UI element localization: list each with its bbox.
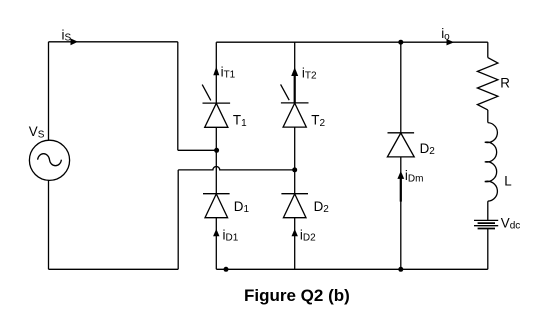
svg-text:D2: D2 — [314, 199, 330, 215]
svg-text:R: R — [500, 76, 510, 91]
svg-text:iD1: iD1 — [223, 227, 239, 243]
svg-text:D1: D1 — [234, 199, 250, 215]
svg-text:Vdc: Vdc — [501, 216, 521, 232]
svg-text:iT2: iT2 — [302, 65, 317, 81]
svg-text:D2: D2 — [420, 141, 436, 157]
svg-text:Figure Q2 (b): Figure Q2 (b) — [244, 286, 350, 305]
svg-text:T2: T2 — [311, 113, 325, 129]
svg-text:T1: T1 — [233, 113, 247, 129]
svg-text:io: io — [441, 26, 450, 42]
svg-text:L: L — [504, 173, 511, 188]
svg-text:iDm: iDm — [405, 168, 424, 184]
svg-text:iT1: iT1 — [221, 64, 236, 80]
svg-text:iS: iS — [62, 27, 72, 43]
svg-text:VS: VS — [29, 124, 45, 140]
svg-text:iD2: iD2 — [300, 227, 316, 243]
